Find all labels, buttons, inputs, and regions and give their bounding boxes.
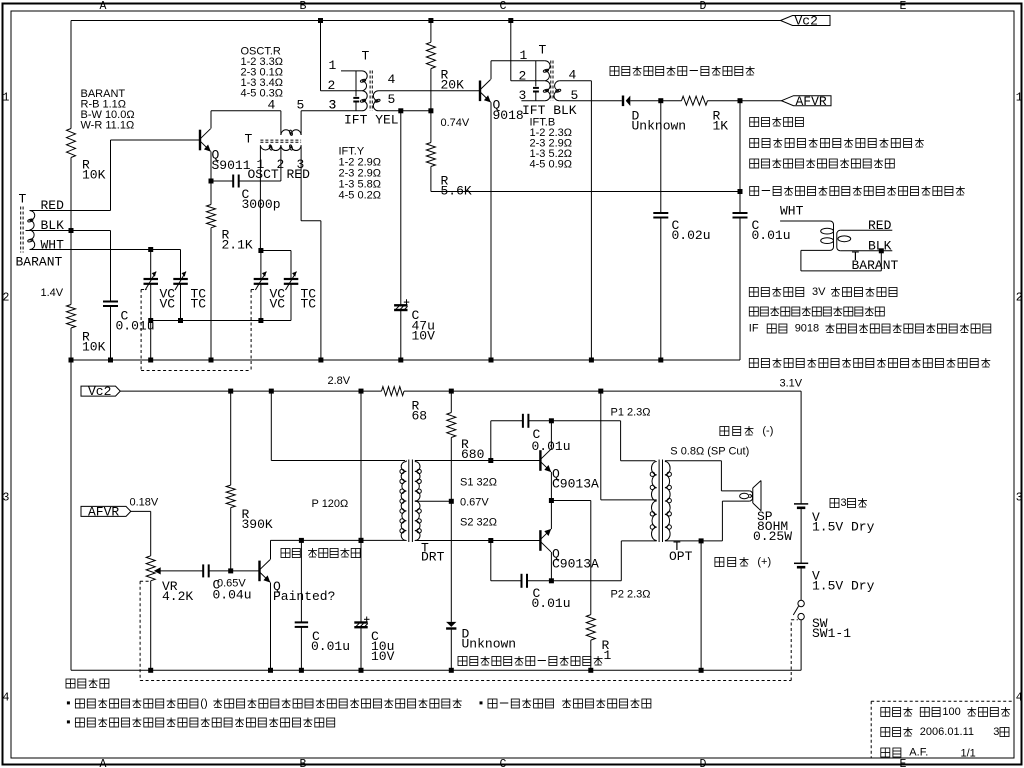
svg-text:VC: VC [160, 297, 176, 312]
wire pin5 node down to C47u [400, 111, 402, 305]
wire R2.1K to ground rail [210, 228, 212, 360]
resistor R 1K [682, 96, 708, 105]
wire top rail to R20K [430, 21, 432, 43]
resistor R 2.1K [207, 205, 216, 228]
svg-text:1.5V Dry: 1.5V Dry [812, 520, 875, 535]
dashed mechanical link VR-SW [140, 580, 150, 582]
node VC2 top [258, 248, 263, 253]
svg-text:680: 680 [461, 447, 484, 462]
wire R20K to node [430, 69, 432, 111]
svg-text:W-R 11.1Ω: W-R 11.1Ω [81, 119, 135, 131]
svg-text:2.8V: 2.8V [328, 375, 351, 387]
svg-text:20K: 20K [441, 78, 465, 93]
svg-text:0.04u: 0.04u [213, 588, 252, 603]
svg-text:3000p: 3000p [242, 197, 281, 212]
node detector output [658, 98, 663, 103]
wire collector S9011 [210, 111, 212, 129]
resistor R2 10K lower [67, 305, 76, 329]
wire to R1K [661, 100, 682, 102]
svg-text:OPT: OPT [669, 549, 693, 564]
svg-text:4-5 0.2Ω: 4-5 0.2Ω [339, 189, 381, 201]
capacitor C7 0.01u feedback2 [521, 574, 523, 588]
wire C0.01u to ground rail corner [739, 218, 741, 361]
node WHT-VC junction [148, 247, 153, 252]
dashed gang box [140, 290, 142, 371]
svg-text:C: C [500, 758, 507, 768]
node BLK junction [69, 228, 74, 233]
svg-text:0.01u: 0.01u [311, 639, 350, 654]
node feedback1 base [488, 458, 493, 463]
transformer T OPT output [651, 462, 656, 541]
svg-text:WHT: WHT [41, 238, 65, 253]
node BLK tie [879, 248, 884, 253]
wire VR bottom to ground rail [150, 581, 152, 671]
svg-text:T: T [539, 43, 547, 58]
text memo silicon diode [610, 67, 619, 76]
capacitor C 0.01u AGC [733, 212, 748, 214]
node [658, 358, 663, 363]
node VC1 bottom [148, 318, 153, 323]
node [209, 358, 214, 363]
wire OSCT pin4 [211, 110, 281, 112]
node collector rail junctions [299, 538, 304, 543]
text notes bottom [66, 679, 75, 688]
wire Q1 emitter down [550, 472, 552, 501]
wire diode to ground rail [450, 629, 452, 671]
svg-text:3: 3 [1016, 492, 1023, 505]
wire Vc2 rail lower [120, 390, 381, 392]
svg-text:1/1: 1/1 [961, 747, 976, 759]
battery V 1.5V Dry 1 [794, 503, 808, 505]
wire IFT-B pin5 to diode [559, 100, 622, 102]
svg-text:10K: 10K [82, 168, 106, 183]
wire VC1 to ground rail [150, 321, 152, 361]
svg-text:2: 2 [1016, 292, 1023, 305]
svg-text:3: 3 [841, 497, 847, 509]
svg-text:4.2K: 4.2K [162, 589, 193, 604]
wire VC2-TC2 top link [261, 250, 291, 252]
wire WHT [30, 249, 181, 251]
svg-text:1: 1 [329, 58, 337, 73]
node [359, 668, 364, 673]
svg-text:0.18V: 0.18V [130, 496, 159, 508]
power flag Vc2 lower [81, 386, 120, 396]
wire Q1 collector up [550, 421, 552, 449]
wire driver emitter to ground rail [270, 583, 272, 671]
svg-text:P2 2.3Ω: P2 2.3Ω [611, 588, 651, 600]
wire R1K to AFVR node [708, 100, 741, 102]
svg-text:E: E [900, 758, 907, 768]
svg-text:(-): (-) [762, 425, 773, 437]
svg-text:T: T [19, 192, 27, 207]
node AGC-AFVR junction [738, 189, 743, 194]
wire C4 to ground rail [300, 627, 302, 670]
svg-text:1: 1 [3, 92, 10, 105]
wire battery to switch [800, 567, 802, 600]
node emitter junction [209, 179, 214, 184]
wire OSCT pin5 to IFT-Y pin3 [301, 110, 362, 112]
svg-text:1: 1 [604, 648, 612, 663]
capacitor C 0.02u [653, 212, 668, 214]
svg-text:S1 32Ω: S1 32Ω [460, 476, 497, 488]
svg-text:2006.01.11: 2006.01.11 [920, 726, 974, 738]
node [148, 668, 153, 673]
resistor R1 10K upper [67, 129, 76, 158]
wire AFVR to VR top [131, 510, 151, 512]
svg-text:4-5 0.3Ω: 4-5 0.3Ω [241, 87, 283, 99]
svg-text:0.01u: 0.01u [532, 596, 571, 611]
svg-text:1.5V Dry: 1.5V Dry [812, 579, 875, 594]
svg-text:E: E [900, 0, 907, 13]
svg-text:0.65V: 0.65V [217, 577, 246, 589]
svg-text:2: 2 [3, 292, 10, 305]
svg-text:1: 1 [1016, 92, 1023, 105]
svg-text:AFVR: AFVR [88, 505, 119, 520]
wire DRT center tap [415, 500, 452, 502]
wire OSCT pin2 down to C3000p [280, 145, 282, 181]
node [489, 358, 494, 363]
svg-text:IF: IF [749, 323, 759, 335]
wire lower ground rail [71, 669, 801, 671]
capacitor C4 0.01u [295, 621, 308, 623]
wire R390K to AF node [230, 508, 232, 571]
svg-text:100: 100 [942, 706, 960, 718]
transformer T BARANT antenna coil [20, 207, 22, 253]
svg-text:P 120Ω: P 120Ω [312, 498, 349, 510]
svg-text:DRT: DRT [421, 550, 445, 565]
title block [871, 700, 1013, 702]
svg-text:S 0.8Ω (SP Cut): S 0.8Ω (SP Cut) [670, 445, 749, 457]
svg-text:0.02u: 0.02u [672, 228, 711, 243]
svg-text:Unknown: Unknown [632, 119, 687, 134]
svg-text:3: 3 [3, 492, 10, 505]
svg-text:2: 2 [519, 69, 527, 84]
wire Vc2 junction to DRT primary top [270, 391, 272, 460]
wire BLK [26, 230, 111, 232]
potentiometer VR 4.2K [146, 556, 155, 581]
wire IFT-B pin4 [559, 80, 591, 82]
svg-text:A: A [100, 0, 107, 13]
node [299, 668, 304, 673]
wire DRT secondary bottom to Q2 base [415, 540, 541, 542]
wire C47u to ground rail [400, 310, 402, 360]
capacitor C5 10u electrolytic [354, 621, 367, 623]
wire R5.6K to AGC rail [430, 167, 432, 192]
wire top Vc2 rail [71, 20, 781, 22]
wire feedback cap2 [490, 541, 492, 581]
diode D Unknown detector [622, 96, 624, 107]
diode D Unknown bias [446, 622, 456, 627]
svg-text:68: 68 [412, 409, 428, 424]
node [268, 668, 273, 673]
capacitor C3 0.01u [103, 301, 118, 303]
wire R390K branch [230, 391, 232, 485]
svg-text:1K: 1K [713, 119, 729, 134]
svg-text:A: A [100, 758, 107, 768]
text memo power warning block [749, 288, 758, 297]
wire diode to node [630, 100, 661, 102]
svg-text:SW1-1: SW1-1 [812, 626, 851, 641]
transistor Q2 C9013A upper [539, 450, 541, 471]
svg-text:Unknown: Unknown [462, 637, 517, 652]
text rear right [715, 558, 724, 567]
wire C4 branch [300, 540, 302, 622]
signal flag AFVR [782, 96, 832, 106]
svg-text:0.25W: 0.25W [753, 529, 792, 544]
transistor Q Painted driver [258, 561, 260, 582]
battery V 1.5V Dry 2 [794, 562, 808, 564]
node center tap [449, 499, 454, 504]
wire OSCT pin3 down [300, 145, 302, 221]
node pin5 junctions [398, 108, 403, 113]
wire AF node to driver base [231, 570, 260, 572]
svg-text:WHT: WHT [780, 204, 804, 219]
wire to AFVR flag [740, 100, 782, 102]
svg-text:T: T [362, 49, 370, 64]
wire C10u branch from Vc2 rail [360, 391, 362, 622]
node [699, 668, 704, 673]
svg-text:5: 5 [297, 98, 305, 113]
svg-text:Painted?: Painted? [273, 589, 335, 604]
resistor R 680 [447, 413, 456, 438]
wire IFT-Y pin5 [379, 110, 431, 112]
wire emitter to R 2.1K [210, 181, 212, 205]
svg-text:10V: 10V [412, 329, 436, 344]
wire AFVR node down [739, 101, 741, 213]
svg-text:4: 4 [3, 692, 10, 705]
svg-text:1: 1 [520, 48, 528, 63]
svg-text:5: 5 [388, 92, 396, 107]
text battery type [830, 499, 839, 508]
wire OPT center tap from Vc2 [600, 391, 602, 500]
wire feedback cap1 [490, 421, 492, 461]
wire R1 to ground rail [590, 640, 592, 670]
svg-text:(+): (+) [757, 556, 771, 568]
node collector-cap2 [549, 578, 554, 583]
wire top section ground rail [71, 359, 740, 361]
switch SW SW1-1 [798, 600, 804, 606]
svg-text:9018: 9018 [795, 323, 819, 335]
wire P1 to OPT primary top [551, 420, 620, 422]
node feedback2 base [488, 538, 493, 543]
node [398, 358, 403, 363]
svg-text:0.01u: 0.01u [532, 439, 571, 454]
node [589, 358, 594, 363]
wire IFT-B pin3 stub [521, 100, 545, 102]
wire driver collector up [270, 540, 272, 559]
node TC1 bottom [178, 318, 183, 323]
svg-text:T: T [245, 132, 253, 147]
node [108, 358, 113, 363]
wire Q2 emitter up [550, 501, 552, 530]
node AFVR junction [738, 98, 743, 103]
svg-text:RED: RED [287, 167, 311, 182]
resistor R 1 [586, 615, 595, 641]
node Vc2 rail junctions [228, 389, 233, 394]
wire emitter S9011 [210, 152, 212, 182]
wire WHT return loop [801, 249, 830, 251]
node bottom rail left end [69, 358, 74, 363]
svg-text:0.01u: 0.01u [752, 228, 791, 243]
node speaker return [699, 538, 704, 543]
wire R10K to BLK node [70, 158, 72, 231]
svg-text:Vc2: Vc2 [795, 14, 818, 29]
svg-text:BARANT: BARANT [852, 258, 899, 273]
wire RED to base net [30, 210, 111, 212]
text kokuin note [281, 549, 290, 558]
transistor Q 9018 [479, 81, 481, 102]
wire R680 to center tap [450, 438, 452, 502]
node top rail junctions [318, 18, 323, 23]
svg-text:2: 2 [328, 78, 336, 93]
wire left ground link between sections [70, 360, 72, 670]
text memo block [750, 118, 759, 127]
transformer T OSCT [280, 111, 282, 135]
wire R680 branch [450, 391, 452, 412]
wire BLK down to C3 [110, 231, 112, 302]
node VC2 bottom [258, 318, 263, 323]
svg-text:TC: TC [191, 297, 207, 312]
svg-text:1.4V: 1.4V [41, 287, 64, 299]
wire base S9011 [111, 139, 201, 141]
svg-text:3: 3 [329, 98, 337, 113]
svg-text:4: 4 [268, 98, 276, 113]
wire driver collector rail to DRT primary bottom [271, 539, 406, 541]
svg-text:C9013A: C9013A [552, 477, 599, 492]
wire lower R10K to ground rail [70, 328, 72, 360]
svg-text:RED: RED [868, 218, 892, 233]
svg-text:10K: 10K [82, 340, 106, 355]
svg-text:4-5 0.9Ω: 4-5 0.9Ω [530, 158, 572, 170]
svg-text:3.1V: 3.1V [780, 377, 803, 389]
svg-text:(): () [200, 698, 207, 710]
svg-text:D: D [700, 758, 707, 768]
signal flag AFVR lower [81, 506, 131, 516]
svg-text:10V: 10V [371, 649, 395, 664]
svg-text:3: 3 [993, 726, 999, 738]
wire IFT-Y pin4 to Q9018 base [379, 90, 481, 92]
wire Vc2 rail to battery [800, 391, 802, 504]
node [449, 668, 454, 673]
wire AGC rail y191 [431, 191, 740, 193]
svg-text:VC: VC [270, 297, 286, 312]
node emitter mid [549, 498, 554, 503]
svg-text:0.67V: 0.67V [460, 496, 489, 508]
svg-text:IFT YEL: IFT YEL [344, 113, 399, 128]
svg-text:390K: 390K [242, 517, 273, 532]
wire varicap common [151, 320, 291, 322]
capacitor C 47u electrolytic [394, 304, 407, 306]
resistor R 390K [226, 485, 235, 508]
svg-text:BARANT: BARANT [16, 255, 63, 270]
wire emitter 9018 to ground rail [490, 102, 492, 360]
transistor Q S9011 [199, 130, 201, 151]
svg-text:4: 4 [1016, 692, 1023, 705]
node AF input [228, 568, 233, 573]
node collector-cap1 [549, 418, 554, 423]
node [588, 668, 593, 673]
capacitor C 0.04u [202, 564, 204, 577]
svg-text:C9013A: C9013A [552, 557, 599, 572]
wire P2 to OPT primary bottom [551, 580, 621, 582]
wire OPT secondary top to speaker [665, 460, 722, 462]
svg-text:B: B [300, 758, 307, 768]
svg-text:4: 4 [388, 72, 396, 87]
variable capacitor VC1 [150, 250, 152, 280]
wire DRT secondary top to Q1 base [415, 460, 541, 462]
svg-text:OSCT: OSCT [248, 167, 279, 182]
svg-text:0.74V: 0.74V [441, 117, 470, 129]
resistor R 68 on rail [382, 387, 405, 396]
wire OSCT pin1 down [259, 145, 261, 250]
svg-text:2.1K: 2.1K [222, 238, 253, 253]
trimmer capacitor TC1 [180, 250, 182, 280]
resistor R 5.6K [426, 143, 435, 167]
svg-text:D: D [700, 0, 707, 13]
wire left column upper [70, 21, 72, 129]
wire speaker return down [700, 541, 702, 670]
variable capacitor VC2 [260, 251, 262, 280]
capacitor C6 0.01u feedback1 [522, 414, 524, 428]
text rear left [720, 427, 729, 436]
wire to lower R10K [70, 231, 72, 305]
node [318, 358, 323, 363]
svg-text:P1 2.3Ω: P1 2.3Ω [611, 406, 651, 418]
wire Q2 collector down [550, 552, 552, 581]
svg-text:9018: 9018 [493, 108, 524, 123]
svg-text:AFVR: AFVR [796, 94, 827, 109]
capacitor C 3000p [211, 180, 233, 182]
node [359, 538, 364, 543]
wire top rail to IFT-B pin2 [510, 21, 512, 81]
wire C0.02u to ground rail [660, 218, 662, 361]
wire collector 9018 up [490, 61, 492, 80]
transistor Q3 C9013A lower [539, 530, 541, 551]
wire collector to IFT-B pin1 [491, 60, 545, 62]
svg-text:TC: TC [301, 297, 317, 312]
wire battery link [800, 508, 802, 564]
transformer T DRT driver [401, 462, 406, 541]
text silicon diode note 2 [458, 657, 467, 666]
wire C10u to ground rail [360, 627, 362, 670]
wire pin3 jog to ground rail [301, 220, 321, 222]
svg-text:C: C [500, 0, 507, 13]
speaker SP [749, 491, 752, 498]
svg-text:B: B [300, 0, 307, 13]
svg-text:Vc2: Vc2 [88, 384, 111, 399]
wire det node down to C 0.02u [660, 101, 662, 213]
wire switch to ground rail [800, 620, 802, 671]
resistor R 20K [426, 42, 435, 68]
wire top rail to IFT-Y pin2 [320, 21, 322, 91]
wire C3 to ground rail [110, 306, 112, 360]
svg-text:S2 32Ω: S2 32Ω [460, 516, 497, 528]
wire center tap down to diode [450, 501, 452, 622]
wire OPT secondary bottom [665, 540, 723, 542]
power flag Vc2 [781, 16, 831, 26]
node [148, 358, 153, 363]
svg-text:3V: 3V [812, 286, 826, 298]
svg-text:A.F.: A.F. [909, 747, 928, 759]
trimmer capacitor TC2 [284, 278, 299, 280]
wire to speaker bottom [721, 501, 723, 541]
wire emitter node to R1 [551, 500, 590, 502]
wire node to R5.6K [430, 111, 432, 143]
svg-text:S9011: S9011 [212, 158, 251, 173]
